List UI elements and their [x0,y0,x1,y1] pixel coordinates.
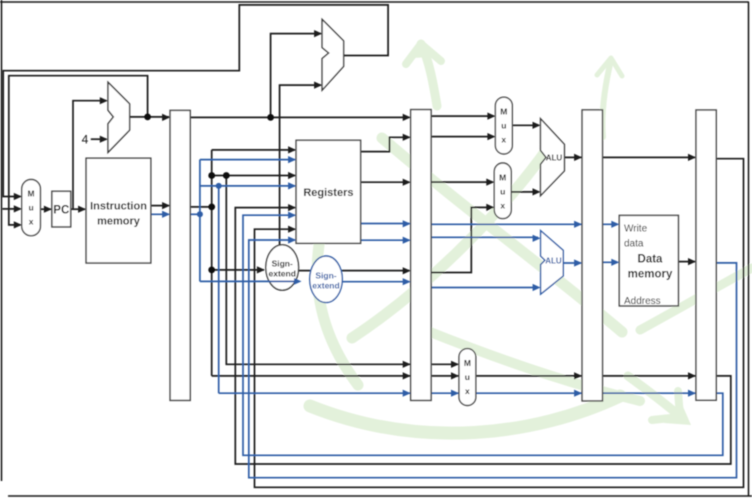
svg-text:M: M [464,358,471,368]
wire to branch adder top input [271,34,321,118]
svg-text:u: u [28,203,33,213]
junction instr from IF/ID [208,204,215,211]
wire ALU out -> EX/MEM -> MEM/WB [564,156,695,158]
wire ID/EX -> mux2 input a [431,181,493,183]
wire registers read1 jog -> ID/EX [361,137,410,151]
wire sign-extend top to branch adder bottom input [280,85,321,246]
wire blue loop1 back to registers write reg [243,215,723,455]
wire adder1 out -> IF/ID [130,116,169,118]
svg-text:Data: Data [638,254,664,266]
pipeline register MEM/WB [696,110,716,400]
adder 1 (PC+4) [108,82,130,152]
wire ALU-result writeback loop [255,159,744,488]
svg-text:Write: Write [624,224,648,235]
wire IM instruction out -> IF/ID [151,205,169,207]
wire blue destination/writeback line through bottom mux [219,392,717,394]
svg-text:u: u [501,121,506,131]
wire mux1 out -> ALU [512,124,539,126]
svg-text:ALU: ALU [546,154,563,163]
svg-text:ALU: ALU [545,257,562,266]
junction blue read reg 2 / rt [216,183,222,189]
registers box [296,140,361,243]
junction PC+4 tap [144,114,151,121]
svg-text:extend: extend [268,269,295,279]
svg-text:x: x [501,135,506,145]
svg-text:data: data [624,239,644,250]
wire IM blue instruction -> IF/ID [151,213,169,215]
mux PC (pill) [22,180,41,236]
mux 1 (ALU src a) [495,97,512,154]
junction blue instr from IF/ID [197,211,203,217]
wire read reg 1 [212,149,295,151]
wire ID/EX -> mux1 input a [431,115,494,117]
svg-text:PC: PC [53,205,69,217]
wire ID/EX immediate elbow -> mux2 input b [431,207,493,272]
svg-text:u: u [465,372,470,382]
wire PC+4 loop: adder1 junction -> up -> left -> PC mux input 3 [9,76,148,225]
wire read reg 2 [212,175,295,177]
junction instr bus / read reg 2 [208,172,215,179]
wire sign-extend out -> ID/EX [299,270,410,272]
wire instruction vertical bus x=211.7 [211,150,213,376]
junction instr bus / sign-extend [208,267,215,274]
wire "4" constant to adder1 [91,138,107,140]
wire DM out -> MEM/WB [678,261,695,263]
sign-extend black ellipse [266,245,299,290]
ALU blue [541,231,564,295]
sign-extend blue ellipse [310,256,343,303]
ALU black [541,119,565,196]
adder 2 (branch) [322,19,344,90]
wire blue instruction from IF/ID [190,213,200,215]
wire blue immediate to blue sign-extend (over black ellipse) [200,280,299,282]
svg-text:x: x [500,201,505,211]
arrow blue into blue sign-extend [294,278,302,285]
junction read reg 2 / rt field [223,172,230,179]
wire PC+4 from IF/ID -> dot -> ID/EX [190,116,409,118]
watermark logo [310,40,752,433]
wire instr bus bottom to bottom-mux input 2 / through registers [212,208,731,464]
wire registers read2 -> ID/EX [361,181,410,183]
wire sign-extend input [212,269,264,271]
wire blue registers read1 -> write data path [361,223,618,226]
wire blue sign-extend out -> ID/EX -> blue ALU input2 [342,282,538,288]
pipeline register EX/MEM [582,110,602,401]
instruction memory box [86,158,151,263]
wire PC -> Instruction memory [71,208,85,210]
svg-text:Sign-: Sign- [272,259,293,269]
wire blue mem loop3 back to registers write data [249,240,737,478]
pipeline register ID/EX [411,110,431,401]
svg-text:Registers: Registers [303,187,353,199]
wire PC tap up to adder1 input [73,101,107,210]
svg-text:memory: memory [97,216,141,228]
wire mux -> PC [40,208,51,210]
wire PC mux input 2 [3,208,21,210]
wire instruction from IF/ID to vertical bus [190,206,212,208]
wire blue read reg 2 [200,185,295,187]
wire rt field down to bottom mux input 1 [226,176,458,365]
wire mux2 out -> ALU [511,191,539,193]
wire blue registers read2 -> blue ALU input1 [361,237,538,240]
wire blue rt down to writeback path [218,186,220,393]
svg-text:Sign-: Sign- [315,271,336,281]
wire blue read reg 1 [200,159,295,161]
svg-text:extend: extend [312,281,339,291]
mux bottom (write register) [459,349,476,406]
svg-text:memory: memory [628,269,673,281]
svg-text:x: x [465,386,470,396]
data memory box [619,215,678,306]
PC box [52,191,71,227]
svg-text:x: x [29,217,34,227]
svg-text:u: u [500,187,505,197]
svg-text:Instruction: Instruction [90,201,147,213]
svg-text:M: M [28,189,35,199]
wire branch-loop: adder2 out -> top -> left -> PC mux input 1 [3,5,388,197]
svg-text:Address: Address [624,296,661,307]
wire blue ALU out -> EX/MEM -> DM address [563,261,618,264]
svg-text:M: M [499,173,506,183]
svg-text:M: M [500,107,507,117]
wire blue instruction vertical bus [199,160,201,282]
wire ID/EX -> mux1 input b [431,136,494,138]
svg-text:4: 4 [82,133,89,147]
junction PC+4 to branch adder [267,114,274,121]
pipeline register IF/ID [170,110,190,400]
mux 2 (ALU src b) [494,163,511,219]
